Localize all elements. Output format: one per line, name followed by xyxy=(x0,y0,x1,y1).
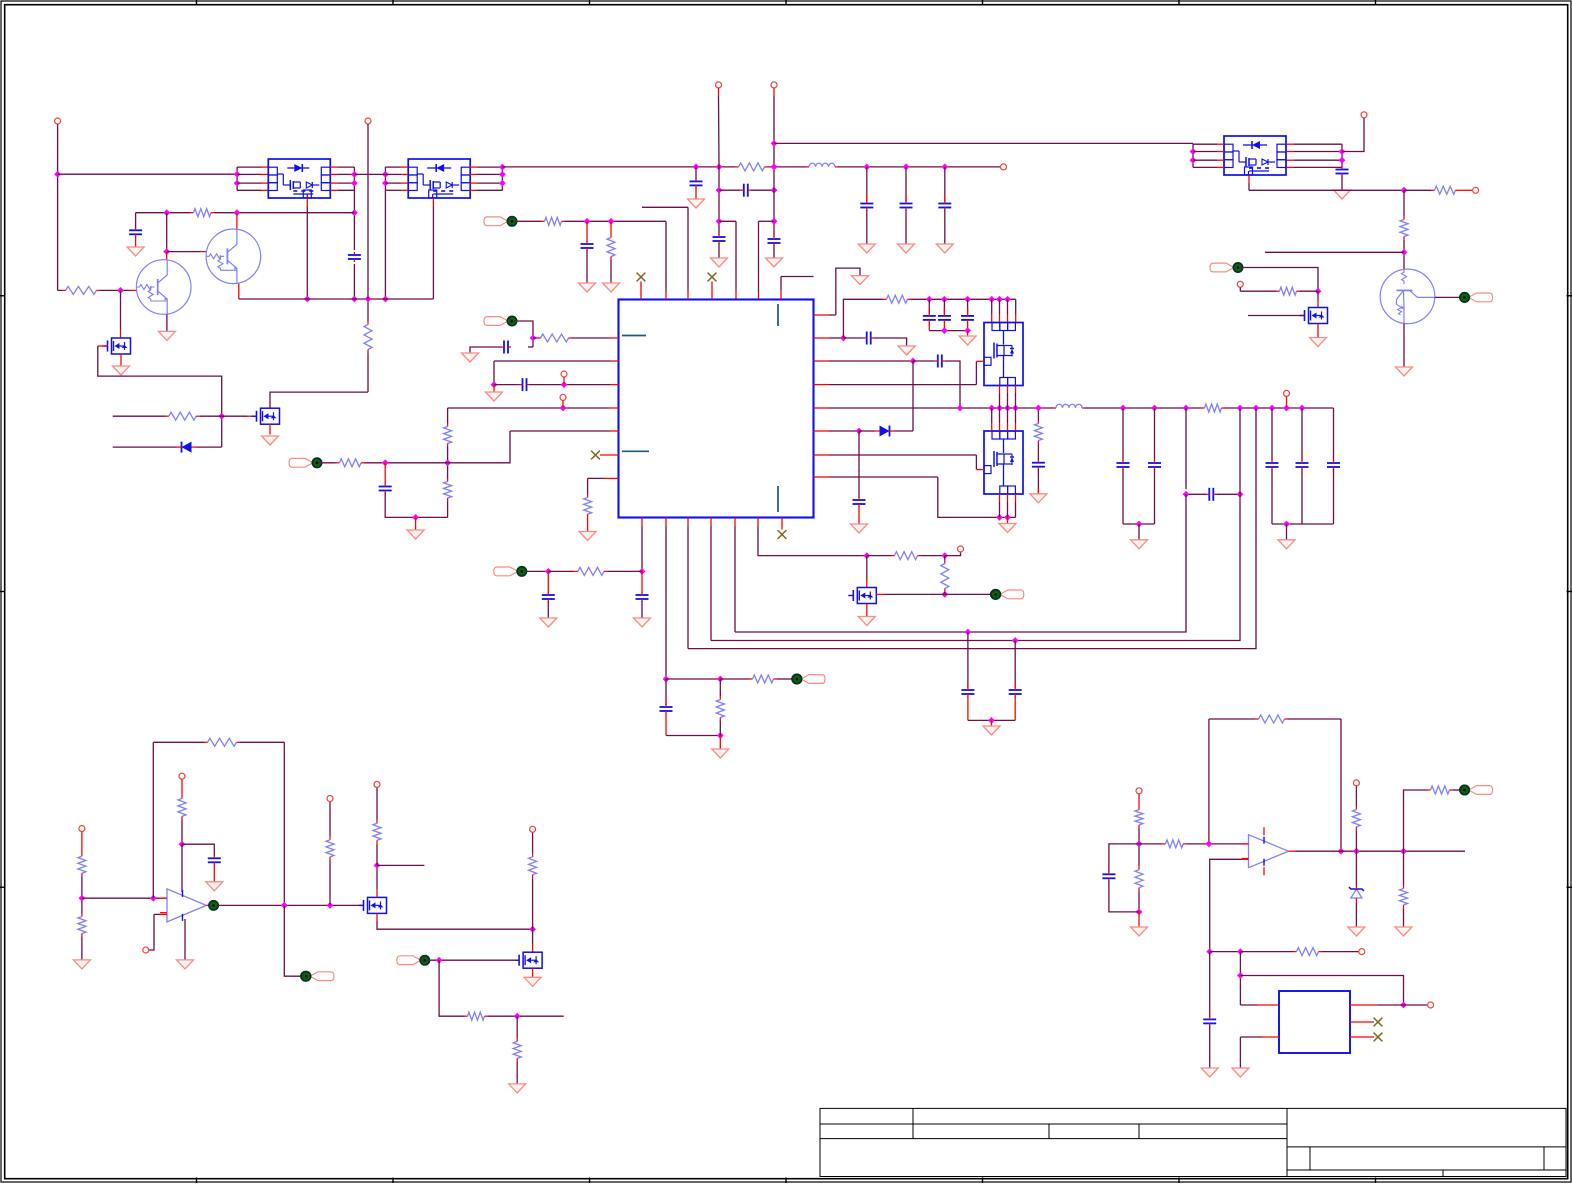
junction xyxy=(964,327,971,334)
wire xyxy=(587,518,589,532)
wire xyxy=(528,346,533,348)
capacitor C5 xyxy=(741,184,751,197)
ground xyxy=(959,336,976,345)
wire xyxy=(967,299,969,314)
wire xyxy=(120,290,122,329)
wire xyxy=(181,820,183,844)
transistor Q3 xyxy=(206,229,261,284)
junction xyxy=(584,218,591,225)
capacitor C2 xyxy=(129,227,142,237)
wire xyxy=(1138,912,1140,927)
wire xyxy=(240,741,284,743)
wire xyxy=(768,166,806,168)
wire xyxy=(719,189,741,191)
junction xyxy=(1283,405,1290,412)
wire xyxy=(1185,408,1187,489)
ground xyxy=(898,346,915,355)
wire xyxy=(587,478,589,494)
wire xyxy=(1015,299,1017,314)
wire xyxy=(353,167,355,250)
resistor R39 xyxy=(1427,786,1453,794)
resistor R12 xyxy=(444,423,452,447)
resistor R19 xyxy=(574,567,607,575)
wire xyxy=(967,322,969,331)
capacitor xyxy=(923,313,936,323)
wire xyxy=(384,167,386,190)
wire xyxy=(1209,1025,1211,1068)
resistor R11 xyxy=(537,334,572,342)
capacitor xyxy=(860,201,873,211)
terminal xyxy=(561,371,567,377)
wire xyxy=(814,454,830,456)
wire xyxy=(695,167,697,180)
wire xyxy=(1272,523,1334,525)
wire xyxy=(858,431,860,498)
wire xyxy=(967,331,969,336)
wire xyxy=(999,494,1001,502)
resistor R18 xyxy=(1201,404,1225,412)
junction xyxy=(941,327,948,334)
wire xyxy=(470,166,478,168)
wire xyxy=(1403,240,1405,269)
junction xyxy=(218,413,225,420)
wire xyxy=(945,552,961,556)
wire xyxy=(968,719,1015,721)
mosfet Q13 xyxy=(359,897,387,913)
wire xyxy=(135,236,137,247)
capacitor C10 xyxy=(520,378,530,391)
wire xyxy=(58,173,238,175)
ground xyxy=(73,960,90,969)
resistor R4 xyxy=(364,321,372,353)
resistor R32 xyxy=(513,1038,521,1062)
junction xyxy=(1035,405,1042,412)
wire xyxy=(718,88,720,96)
wire xyxy=(687,518,689,527)
wire xyxy=(429,959,518,961)
wire xyxy=(967,632,969,688)
no-connect xyxy=(778,530,787,539)
capacitor C8 xyxy=(581,241,594,251)
wire xyxy=(640,282,642,300)
junction xyxy=(560,405,567,412)
mosfet Q5 xyxy=(103,338,131,354)
wire xyxy=(604,477,619,479)
junction xyxy=(771,140,778,147)
resistor R20 xyxy=(749,675,777,683)
wire xyxy=(354,173,385,175)
junction xyxy=(964,296,971,303)
wire xyxy=(718,167,720,235)
pad xyxy=(484,316,517,325)
wire xyxy=(1007,386,1009,394)
junction xyxy=(863,164,870,171)
resistor R30 xyxy=(529,853,537,878)
ground xyxy=(858,244,875,253)
junction xyxy=(514,1013,521,1020)
resistor R24 xyxy=(78,853,86,877)
wire xyxy=(967,696,969,720)
capacitor xyxy=(1148,460,1161,470)
pad xyxy=(792,674,825,683)
junction xyxy=(1012,637,1019,644)
ground xyxy=(579,283,596,292)
wire xyxy=(641,518,643,527)
junction xyxy=(1237,491,1244,498)
resistor R15 xyxy=(584,494,592,518)
wire xyxy=(100,289,130,291)
wire xyxy=(1286,166,1294,168)
wire xyxy=(470,173,478,175)
wire xyxy=(610,260,612,283)
ground xyxy=(983,726,1000,735)
junction xyxy=(693,164,700,171)
wire xyxy=(929,330,967,332)
wire xyxy=(600,454,619,456)
junction xyxy=(717,732,724,739)
wire xyxy=(1138,828,1140,866)
wire xyxy=(1225,407,1334,409)
capacitor C12 xyxy=(864,332,874,345)
wire xyxy=(1015,494,1017,502)
junction xyxy=(1400,848,1407,855)
resistor R26 xyxy=(204,738,240,746)
capacitor C11 xyxy=(379,484,392,494)
wire xyxy=(718,243,720,258)
wire xyxy=(1286,524,1288,540)
wire xyxy=(367,353,369,392)
wire xyxy=(991,299,993,314)
wire xyxy=(470,189,478,191)
wire xyxy=(814,430,830,432)
wire xyxy=(385,462,447,464)
wire xyxy=(1239,408,1241,494)
junction xyxy=(941,296,948,303)
wire xyxy=(1192,144,1194,167)
title block xyxy=(820,1108,1566,1176)
junction xyxy=(382,459,389,466)
wire xyxy=(184,919,186,960)
junction xyxy=(1206,841,1213,848)
ground xyxy=(177,960,194,969)
junction xyxy=(163,248,170,255)
ground xyxy=(1396,367,1413,376)
junction xyxy=(561,381,568,388)
wire xyxy=(1154,408,1156,461)
terminal xyxy=(79,826,85,832)
resistor R9 xyxy=(607,234,615,260)
junction xyxy=(545,568,552,575)
mosfet module Q11 xyxy=(984,431,1023,494)
wire xyxy=(944,556,946,560)
resistor R10 xyxy=(541,217,565,225)
wire xyxy=(1404,189,1431,191)
wire xyxy=(1403,324,1405,367)
wire xyxy=(1240,1004,1257,1006)
junction xyxy=(412,514,419,521)
resistor R13 xyxy=(444,478,452,502)
resistor R31 xyxy=(464,1012,488,1020)
mosfet module Q1 xyxy=(268,159,330,198)
no-connect xyxy=(708,273,717,282)
wire xyxy=(181,779,183,795)
wire xyxy=(1301,469,1303,524)
wire xyxy=(999,408,1001,423)
transistor Q8 xyxy=(1380,269,1435,324)
ground xyxy=(1334,190,1351,199)
wire xyxy=(895,430,914,432)
wire xyxy=(113,446,177,448)
wire xyxy=(565,220,666,222)
wire xyxy=(814,407,830,409)
terminal xyxy=(530,826,536,832)
wire xyxy=(780,290,782,300)
wire xyxy=(1350,1021,1374,1023)
wire xyxy=(1210,859,1242,951)
wire xyxy=(928,322,930,331)
wire xyxy=(365,462,386,464)
wire xyxy=(57,124,59,290)
terminal VIN xyxy=(55,118,61,124)
ground xyxy=(852,276,869,285)
ground xyxy=(688,199,705,208)
terminal xyxy=(1237,281,1243,287)
junction xyxy=(304,296,311,303)
ground xyxy=(462,353,479,362)
junction xyxy=(281,902,288,909)
ground xyxy=(407,530,424,539)
wire xyxy=(376,889,378,897)
IC U1 xyxy=(619,300,814,518)
ground xyxy=(1131,927,1148,936)
wire xyxy=(1037,408,1039,420)
wire xyxy=(330,189,337,191)
junction xyxy=(351,209,358,216)
wire xyxy=(911,298,1016,300)
pad xyxy=(494,567,527,576)
wire xyxy=(547,601,549,618)
wire xyxy=(237,166,261,168)
wire xyxy=(1109,844,1139,872)
wire xyxy=(991,408,993,423)
capacitor C16 xyxy=(1206,488,1216,501)
wire xyxy=(154,913,160,915)
capacitor xyxy=(900,201,913,211)
junction xyxy=(1004,514,1011,521)
junction xyxy=(1353,848,1360,855)
junction xyxy=(996,405,1003,412)
junction xyxy=(382,180,389,187)
junction xyxy=(771,164,778,171)
wire xyxy=(532,878,534,929)
wire xyxy=(695,187,697,199)
junction xyxy=(179,841,186,848)
wire xyxy=(642,206,688,208)
terminal xyxy=(179,773,185,779)
wire xyxy=(945,593,991,595)
resistor R22 xyxy=(891,552,921,560)
junction xyxy=(941,164,948,171)
wire xyxy=(1435,296,1460,298)
junction xyxy=(988,296,995,303)
wire xyxy=(136,212,190,214)
wire xyxy=(719,736,721,750)
wire xyxy=(330,182,337,184)
wire xyxy=(1109,880,1139,912)
wire xyxy=(757,518,759,527)
ground xyxy=(766,258,783,267)
mosfet Q6 xyxy=(252,408,280,424)
junction xyxy=(856,428,863,435)
wire xyxy=(943,299,945,314)
wire xyxy=(470,182,478,184)
wire xyxy=(1341,166,1343,168)
pad xyxy=(484,217,517,226)
wire xyxy=(385,173,401,175)
wire xyxy=(1240,951,1293,953)
mosfet module Q10 xyxy=(984,323,1023,386)
wire xyxy=(1239,287,1241,291)
resistor R17 xyxy=(1034,420,1042,444)
wire xyxy=(113,415,166,417)
junction xyxy=(234,171,241,178)
wire xyxy=(1239,952,1241,1005)
ground xyxy=(579,532,596,541)
junction xyxy=(988,405,995,412)
wire xyxy=(999,299,1001,314)
ground xyxy=(1310,338,1327,347)
junction xyxy=(436,957,443,964)
ground xyxy=(113,366,130,375)
capacitor C13 xyxy=(935,355,945,368)
wire xyxy=(533,337,537,339)
wire xyxy=(384,463,386,485)
junction xyxy=(1253,405,1260,412)
junction xyxy=(1338,848,1345,855)
wire xyxy=(353,264,355,299)
wire xyxy=(1271,469,1273,524)
wire xyxy=(385,189,401,191)
junction xyxy=(491,381,498,388)
wire xyxy=(385,182,401,184)
wire xyxy=(527,570,549,572)
wire xyxy=(1123,523,1155,525)
wire xyxy=(1453,789,1460,791)
wire xyxy=(710,518,712,527)
junction xyxy=(771,218,778,225)
capacitor C14 xyxy=(853,497,866,507)
ground xyxy=(262,436,279,445)
capacitor C22 xyxy=(208,855,221,865)
wire xyxy=(367,299,369,321)
wire xyxy=(1007,494,1009,502)
wire xyxy=(1286,143,1294,145)
wire xyxy=(1240,976,1403,1006)
terminal xyxy=(143,947,149,953)
wire xyxy=(376,844,378,866)
terminal xyxy=(958,546,964,552)
wire xyxy=(774,142,1193,144)
capacitor C23 xyxy=(1102,871,1115,881)
wire xyxy=(239,298,434,300)
wire xyxy=(167,251,200,253)
wire xyxy=(975,455,977,470)
capacitor C15 xyxy=(1032,460,1045,470)
resistor R27 xyxy=(178,795,186,820)
wire xyxy=(1037,444,1039,461)
wire xyxy=(367,124,369,299)
terminal xyxy=(716,82,722,88)
capacitor C9 xyxy=(501,341,511,354)
wire xyxy=(81,832,83,853)
junction xyxy=(910,358,917,365)
wire xyxy=(1015,386,1017,394)
op-amp U3 xyxy=(1242,827,1296,875)
junction xyxy=(1183,405,1190,412)
wire xyxy=(200,415,222,417)
pad xyxy=(1210,263,1243,272)
wire xyxy=(1208,719,1210,844)
wire xyxy=(1241,268,1318,292)
junction xyxy=(281,902,288,909)
terminal xyxy=(1428,1002,1434,1008)
capacitor C20 xyxy=(636,592,649,602)
wire xyxy=(1300,290,1318,292)
wire xyxy=(152,742,154,898)
wire xyxy=(1193,151,1217,153)
wire xyxy=(81,937,83,960)
junction xyxy=(234,209,241,216)
wire xyxy=(666,678,720,680)
wire xyxy=(1187,843,1242,845)
wire xyxy=(586,221,588,242)
junction xyxy=(840,335,847,342)
wire xyxy=(98,345,108,347)
junction xyxy=(530,335,537,342)
capacitor xyxy=(1117,460,1130,470)
pad xyxy=(289,458,322,467)
wire xyxy=(944,167,946,202)
wire xyxy=(777,678,792,680)
wire xyxy=(284,905,301,976)
capacitor xyxy=(1266,460,1279,470)
wire xyxy=(1193,166,1217,168)
wire xyxy=(719,679,721,696)
junction xyxy=(529,926,536,933)
junction xyxy=(716,187,723,194)
junction xyxy=(499,180,506,187)
wire xyxy=(814,314,830,316)
capacitor C19 xyxy=(542,592,555,602)
wire xyxy=(1301,408,1303,461)
junction xyxy=(1299,405,1306,412)
wire xyxy=(836,268,860,315)
ground xyxy=(509,1084,526,1093)
wire xyxy=(320,462,336,464)
wire xyxy=(1403,908,1405,927)
terminal xyxy=(1353,780,1359,786)
wire xyxy=(759,220,775,222)
wire xyxy=(153,741,204,743)
wire xyxy=(665,713,667,736)
wire xyxy=(377,864,424,866)
wire xyxy=(135,213,137,229)
junction xyxy=(903,164,910,171)
wire xyxy=(814,476,830,478)
wire xyxy=(447,502,449,518)
wire xyxy=(1271,408,1273,461)
capacitor xyxy=(961,313,974,323)
